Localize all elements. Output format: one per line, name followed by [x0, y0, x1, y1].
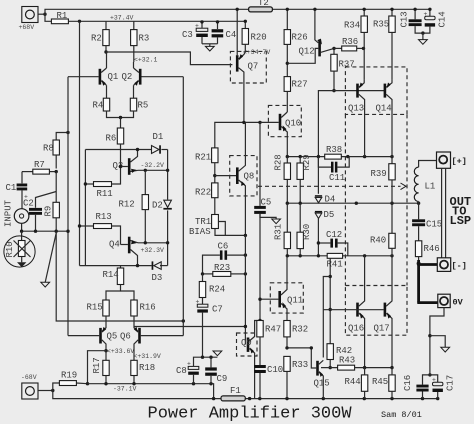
capacitor C4: [212, 22, 237, 44]
fuse T2: [249, 0, 273, 12]
capacitor C17: [430, 375, 456, 399]
transistor Q17: [374, 256, 393, 368]
label OUT TO LSP: [450, 195, 472, 228]
capacitor C9: [205, 357, 227, 384]
node C8 C9 junctions: [201, 356, 213, 359]
svg-text:Q15: Q15: [314, 379, 330, 389]
svg-text:C6: C6: [218, 241, 229, 251]
connector INPUT: [4, 199, 29, 231]
resistor R3: [131, 21, 150, 62]
svg-text:C16: C16: [403, 375, 413, 391]
diode D5: [315, 210, 334, 256]
resistor R16: [131, 300, 156, 316]
ground input shield: [41, 282, 50, 287]
node C3 top: [200, 20, 203, 23]
wire Q16 Q17 base row: [323, 309, 383, 311]
terminal -68V: [21, 374, 53, 399]
box Q7 dashed: [230, 51, 266, 83]
svg-text:Q1: Q1: [108, 72, 119, 82]
svg-text:R35: R35: [373, 19, 389, 29]
svg-text:R7: R7: [34, 160, 45, 170]
node R19 right: [86, 382, 89, 385]
resistor R13: [80, 212, 121, 245]
svg-text:R37: R37: [339, 60, 355, 70]
resistor R23: [203, 263, 246, 277]
svg-text:C9: C9: [217, 374, 228, 384]
capacitor C7: [196, 299, 223, 358]
node R46 bottom: [417, 262, 421, 266]
svg-text:-68V: -68V: [21, 374, 37, 381]
node R35 rail: [390, 8, 393, 11]
resistor R14: [103, 266, 135, 300]
node input R8 tap: [66, 131, 69, 134]
svg-text:R43: R43: [339, 356, 355, 366]
svg-text:D1: D1: [153, 132, 164, 142]
wire input vertical x68: [67, 77, 69, 336]
svg-text:R42: R42: [336, 346, 352, 356]
svg-text:R3: R3: [139, 34, 150, 44]
wire speaker double line: [442, 168, 446, 257]
node R21 R22 junction: [213, 174, 216, 177]
capacitor C12: [317, 230, 348, 256]
node R26 R27 junction: [286, 62, 289, 65]
node +68V junction: [43, 13, 46, 16]
node R2 bottom: [104, 50, 107, 53]
resistor R27: [284, 77, 308, 112]
resistor R12: [119, 170, 149, 243]
transistor Q8: [215, 122, 255, 235]
node bottom rail junctions: [212, 397, 439, 400]
wire top +68V rail: [45, 9, 429, 14]
capacitor C15: [412, 203, 442, 241]
svg-text:R12: R12: [119, 200, 135, 210]
svg-text:C1: C1: [6, 183, 17, 193]
transistor Q5: [68, 326, 117, 351]
svg-text:F1: F1: [230, 386, 241, 396]
wire thick output ground: [417, 260, 438, 303]
svg-text:D3: D3: [152, 273, 163, 283]
svg-text:R5: R5: [138, 101, 149, 111]
terminal +68V: [19, 7, 46, 32]
svg-text:<+32.1: <+32.1: [134, 57, 158, 64]
node R34 rail: [363, 8, 366, 11]
resistor R37: [331, 48, 355, 90]
box Q9 dashed: [237, 333, 258, 356]
svg-text:R40: R40: [370, 236, 386, 246]
svg-text:+68V: +68V: [19, 24, 35, 31]
node C13 rail: [413, 8, 416, 11]
ground near C5: [272, 219, 281, 224]
resistor R22: [195, 183, 218, 215]
wire rail 203 output: [287, 202, 418, 204]
svg-text:R2: R2: [91, 34, 102, 44]
node C6 right: [244, 253, 247, 256]
svg-text:Q5: Q5: [107, 332, 118, 342]
node input junctions: [20, 230, 70, 233]
resistor R5: [130, 98, 148, 111]
node R11 left: [84, 182, 87, 185]
node rail 122 junctions: [242, 121, 261, 124]
svg-text:LSP: LSP: [450, 214, 472, 228]
wire long vertical x79.5: [79, 21, 81, 265]
resistor R4: [93, 98, 110, 111]
transistor Q10: [260, 112, 301, 157]
svg-text:0V: 0V: [453, 298, 464, 308]
capacitor C3: [182, 22, 208, 44]
svg-text:Q4: Q4: [109, 240, 120, 250]
capacitor C1: [6, 172, 28, 209]
svg-text:R39: R39: [371, 169, 387, 179]
diode D2: [152, 200, 172, 210]
box Q11 dashed: [270, 283, 303, 313]
svg-text:Q8: Q8: [244, 172, 255, 182]
svg-text:Q12: Q12: [299, 47, 315, 57]
inductor L1: [414, 161, 436, 204]
terminal 0V: [438, 294, 464, 307]
resistor R47: [257, 321, 281, 366]
potentiometer R10: [4, 231, 35, 267]
node R36 to R34 column: [363, 47, 366, 49]
node rail 203 junctions: [286, 202, 421, 205]
svg-text:+37.4V: +37.4V: [110, 15, 134, 22]
node rail 156 junctions: [286, 155, 394, 158]
node R42 bottom: [329, 366, 332, 369]
svg-text:R6: R6: [106, 134, 117, 144]
svg-text:C5: C5: [261, 197, 272, 207]
wire R9 node to feedback: [56, 231, 183, 321]
svg-text:Q10: Q10: [285, 119, 301, 129]
svg-text:R31: R31: [274, 224, 284, 240]
svg-text:Q16: Q16: [348, 324, 364, 334]
wire rail 256: [287, 255, 392, 257]
node C4 top: [216, 20, 219, 23]
svg-text:R41: R41: [327, 260, 343, 270]
wire Q13 Q14 base row: [334, 90, 384, 92]
svg-text:D4: D4: [325, 195, 336, 205]
transistor Q9: [241, 321, 260, 399]
svg-text:C15: C15: [426, 220, 442, 230]
svg-text:R1: R1: [57, 11, 68, 21]
wire Q2 node to Q7 base: [106, 52, 232, 65]
node R44 top: [363, 366, 366, 369]
node R11 Q3 base: [119, 165, 122, 168]
node R13 left: [78, 224, 81, 227]
diode D1: [152, 132, 164, 154]
wire bias loop left: [84, 150, 86, 266]
ground right side: [430, 336, 450, 352]
box Q16 Q17 dashed: [345, 286, 407, 336]
wire C8 C9 node row: [194, 357, 218, 366]
svg-text:C12: C12: [326, 230, 342, 240]
resistor R2: [91, 21, 109, 52]
resistor R30: [297, 203, 312, 256]
svg-text:R36: R36: [342, 37, 358, 47]
svg-text:R29: R29: [302, 154, 312, 170]
svg-text:C7: C7: [212, 305, 223, 315]
svg-text:C4: C4: [226, 30, 237, 40]
svg-text:R32: R32: [292, 325, 308, 335]
transistor Q4: [109, 237, 138, 266]
node R45 top: [390, 366, 393, 369]
ground under C13 C14: [419, 33, 428, 44]
wire rail 122: [215, 122, 260, 147]
wire x330 R42 column: [329, 258, 331, 343]
transistor Q12: [287, 9, 334, 63]
svg-text:R28: R28: [274, 154, 284, 170]
transistor Q11: [260, 256, 303, 321]
node C14 rail: [428, 8, 431, 11]
capacitor C16: [403, 375, 430, 399]
wire dashed pair verticals: [345, 114, 407, 285]
svg-text:R20: R20: [251, 33, 267, 43]
svg-text:R30: R30: [302, 224, 312, 240]
transistor Q14: [376, 80, 393, 157]
svg-text:R10: R10: [5, 241, 15, 257]
wire Q3 emitter row: [138, 169, 168, 171]
svg-text:R14: R14: [103, 270, 119, 280]
resistor R39: [371, 157, 396, 204]
wire bias loop top: [85, 149, 167, 151]
node C13 C14 gnd junction: [421, 31, 424, 34]
node Q3 emitter junctions: [144, 169, 170, 172]
transistor Q15: [287, 348, 330, 399]
resistor R28: [274, 154, 291, 203]
node R6 top: [119, 116, 122, 119]
wire Q4 emitter row: [138, 242, 168, 244]
svg-text:R24: R24: [209, 285, 225, 295]
resistor R31: [274, 203, 291, 256]
svg-text:R46: R46: [424, 244, 440, 254]
diode D3: [152, 261, 163, 283]
svg-text:Q7: Q7: [248, 62, 259, 72]
svg-text:Q11: Q11: [287, 296, 303, 306]
node R23 junctions: [201, 272, 247, 275]
svg-text:C2: C2: [23, 199, 34, 209]
wire bias loop right: [167, 150, 169, 266]
transistor Q6: [120, 316, 183, 360]
node R42 column junctions: [329, 275, 332, 311]
node Q12 collector rail: [313, 8, 316, 11]
svg-text:Q17: Q17: [374, 324, 390, 334]
node Q15 base tap: [310, 346, 313, 349]
node Q3 collector loop: [136, 148, 139, 151]
transistor Q3: [113, 150, 139, 175]
svg-text:T2: T2: [258, 0, 269, 8]
node top rail Q7: [236, 8, 239, 11]
svg-text:R21: R21: [195, 153, 211, 163]
wire R4 R5 to R6: [107, 111, 134, 118]
node Q4 collector loop: [136, 264, 139, 267]
svg-text:R27: R27: [292, 80, 308, 90]
transistor Q2: [122, 62, 184, 98]
svg-text:C10: C10: [267, 365, 283, 375]
svg-text:C14: C14: [438, 11, 448, 27]
svg-text:Q9: Q9: [241, 338, 252, 348]
resistor R24: [199, 274, 225, 304]
svg-text:R23: R23: [214, 263, 230, 273]
svg-text:BIAS: BIAS: [189, 227, 211, 237]
wire R37 to D4 node: [318, 91, 334, 157]
wire R1 branch: [45, 14, 51, 21]
svg-text:R44: R44: [345, 377, 361, 387]
box Q8 dashed: [230, 156, 257, 196]
resistor R44: [345, 368, 368, 399]
node R36 right: [362, 47, 365, 50]
node R47 top: [258, 319, 261, 322]
capacitor C5: [254, 197, 276, 219]
capacitor C13: [400, 9, 423, 33]
node Q12 emitter: [332, 47, 335, 50]
resistor R40: [370, 203, 395, 256]
node Q11 base: [258, 298, 261, 301]
trimmer TR1: [189, 215, 245, 238]
node -37 row junctions: [104, 382, 212, 385]
wire 0V down to C16 C17: [430, 308, 444, 375]
terminal OUT plus: [437, 152, 467, 168]
svg-text:C13: C13: [400, 11, 410, 27]
ground under C3 C4: [202, 44, 218, 51]
resistor R45: [372, 368, 395, 399]
resistor R34: [344, 9, 367, 80]
wire +37.4V rail: [68, 20, 245, 22]
svg-text:R8: R8: [43, 144, 54, 154]
svg-text:Q14: Q14: [376, 104, 392, 114]
svg-text:Q13: Q13: [348, 104, 364, 114]
box Q10 dashed: [268, 105, 301, 136]
svg-text:+32.3V: +32.3V: [141, 247, 165, 254]
node C16 C17 top: [428, 373, 431, 376]
resistor R43: [321, 356, 392, 371]
wire Q10 base to C5: [259, 122, 261, 205]
svg-text:R26: R26: [292, 33, 308, 43]
diode D4: [315, 157, 335, 205]
resistor R36: [334, 37, 364, 51]
svg-text:Q6: Q6: [120, 332, 131, 342]
node R1 out: [78, 20, 81, 23]
node R32 bottom: [285, 346, 288, 349]
svg-text:Power Amplifier 300W: Power Amplifier 300W: [148, 405, 353, 424]
fuse F1: [221, 386, 245, 401]
svg-text:C3: C3: [182, 30, 193, 40]
resistor R17: [92, 351, 109, 384]
resistor R6: [106, 118, 124, 167]
capacitor C11: [318, 157, 349, 184]
wire feedback dashed arrow: [258, 183, 406, 190]
svg-text:C11: C11: [329, 173, 345, 183]
node Q4 emitter junctions: [144, 241, 170, 244]
resistor R41: [327, 253, 343, 269]
node R37 bottom: [332, 89, 335, 92]
svg-text:R17: R17: [92, 357, 102, 373]
node Q9 base tee: [244, 325, 247, 328]
svg-text:C17: C17: [446, 375, 456, 391]
svg-text:R11: R11: [97, 189, 113, 199]
wire Q8 emitter to Q9: [244, 235, 246, 344]
svg-text:R34: R34: [344, 21, 360, 31]
node -68V junction: [51, 389, 54, 392]
wire feedback vertical x183: [182, 77, 184, 336]
wire rail 156: [287, 156, 392, 158]
resistor R18: [131, 360, 155, 383]
resistor R11: [85, 167, 120, 200]
svg-text:Sam 8/01: Sam 8/01: [381, 410, 422, 420]
resistor R38: [325, 145, 343, 159]
resistor R33: [284, 356, 308, 398]
node R7 right: [55, 170, 58, 173]
resistor R42: [327, 344, 352, 368]
wire C5 to Q11 base R47: [259, 214, 261, 321]
wire input gnd diagonal: [45, 233, 56, 282]
node R26 top rail: [286, 8, 289, 11]
svg-text:-37.1V: -37.1V: [113, 386, 137, 393]
svg-text:D5: D5: [324, 210, 335, 220]
svg-text:R38: R38: [326, 145, 342, 155]
svg-text:INPUT: INPUT: [4, 199, 14, 227]
node TR1 Q8 emitter: [244, 234, 247, 237]
svg-text:Q2: Q2: [122, 72, 133, 82]
wire bias loop bottom: [80, 265, 168, 267]
box Q13 Q14 dashed: [345, 67, 407, 115]
svg-text:TR1: TR1: [195, 217, 211, 227]
svg-text:<+33.6V: <+33.6V: [107, 348, 134, 355]
svg-text:[+]: [+]: [452, 157, 467, 167]
capacitor C6: [203, 241, 246, 274]
wire -37.1V row: [88, 384, 214, 399]
svg-text:-32.2V: -32.2V: [141, 162, 165, 169]
resistor R19: [53, 371, 88, 391]
svg-text:R4: R4: [93, 101, 104, 111]
transistor Q13: [348, 80, 365, 157]
resistor R20: [242, 21, 267, 52]
node Q5 emitter: [104, 349, 107, 352]
svg-text:L1: L1: [425, 182, 436, 192]
svg-text:R15: R15: [87, 303, 103, 313]
svg-text:R19: R19: [61, 371, 77, 381]
terminal OUT minus: [437, 258, 467, 272]
resistor R1: [51, 11, 68, 24]
wire bottom rail: [53, 391, 438, 399]
node rail 256 junctions: [286, 254, 394, 257]
svg-text:R47: R47: [265, 325, 281, 335]
ground under R10: [17, 257, 26, 268]
node feedback tee: [182, 319, 185, 322]
svg-text:D2: D2: [152, 201, 163, 211]
resistor R32: [284, 321, 308, 348]
resistor R8: [43, 133, 68, 169]
ground near C8: [213, 351, 222, 356]
wire Q5 emitter to R19: [88, 351, 107, 384]
transistor Q16: [348, 256, 365, 368]
capacitor C10: [254, 365, 283, 399]
transistor Q7: [236, 9, 258, 122]
svg-text:R18: R18: [139, 363, 155, 373]
svg-text:[-]: [-]: [452, 261, 467, 271]
svg-text:R13: R13: [96, 212, 112, 222]
svg-text:R45: R45: [372, 377, 388, 387]
resistor R9: [44, 172, 60, 232]
node gnd branch: [428, 334, 431, 337]
resistor R15: [87, 300, 110, 326]
resistor R26: [284, 9, 308, 76]
svg-text:<+31.9V: <+31.9V: [134, 353, 161, 360]
svg-text:R16: R16: [140, 303, 156, 313]
svg-text:R9: R9: [44, 206, 54, 217]
resistor R35: [373, 9, 395, 80]
svg-text:R22: R22: [195, 188, 211, 198]
node R20 top: [244, 20, 247, 23]
transistor Q1: [68, 52, 118, 98]
resistor R46: [415, 241, 439, 260]
